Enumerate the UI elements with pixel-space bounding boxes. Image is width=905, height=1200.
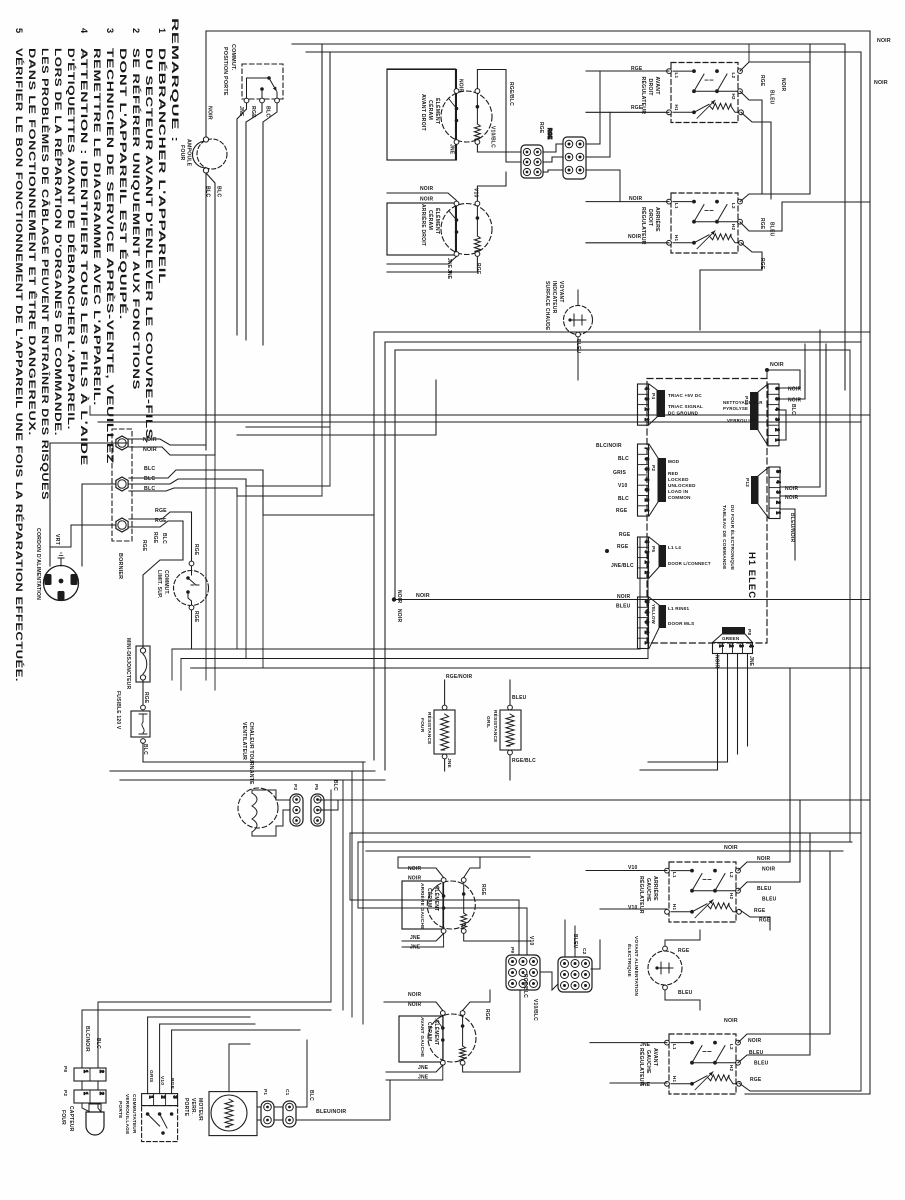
wire capteur <box>81 1062 83 1068</box>
svg-text:GAUCHE: GAUCHE <box>645 1050 651 1074</box>
svg-text:L1 L4: L1 L4 <box>668 545 681 550</box>
svg-text:BLC: BLC <box>144 476 155 482</box>
svg-text:BLC: BLC <box>308 1090 314 1101</box>
svg-text:NOIR: NOIR <box>757 856 770 862</box>
svg-text:P4: P4 <box>650 393 656 399</box>
wire commut-limit <box>191 512 193 561</box>
svg-text:TRIAC SIGNAL: TRIAC SIGNAL <box>668 404 703 409</box>
board H1-ELEC outline <box>647 379 767 644</box>
svg-text:AVANT: AVANT <box>652 1048 658 1067</box>
svg-text:L1: L1 <box>674 203 679 209</box>
svg-text:RGE: RGE <box>538 122 544 134</box>
svg-text:BLC: BLC <box>265 106 271 117</box>
regulator avant gauche <box>669 1034 736 1094</box>
svg-text:RGE: RGE <box>143 692 149 704</box>
svg-text:VOYANT ALIMENTATION: VOYANT ALIMENTATION <box>633 936 639 996</box>
wire mesh horizontals <box>90 44 322 415</box>
svg-text:NOIR: NOIR <box>780 78 786 91</box>
svg-text:2: 2 <box>98 1070 104 1073</box>
svg-text:CÉRAM: CÉRAM <box>427 210 435 230</box>
svg-text:P2: P2 <box>650 465 656 471</box>
wire element3 <box>398 868 444 878</box>
svg-text:SURFACE CHAUDE: SURFACE CHAUDE <box>544 281 550 331</box>
svg-text:DOOR MLS: DOOR MLS <box>668 621 694 626</box>
svg-text:MOTEUR: MOTEUR <box>197 1098 203 1121</box>
svg-text:L2: L2 <box>731 73 736 79</box>
connector P8 <box>713 643 753 654</box>
svg-text:NOIR: NOIR <box>877 38 891 44</box>
svg-text:NOIR: NOIR <box>416 593 430 599</box>
svg-text:2: 2 <box>131 28 141 34</box>
svg-text:MOD: MOD <box>668 459 680 464</box>
wire right bundle <box>819 330 821 487</box>
svg-text:PYROLYSE: PYROLYSE <box>723 406 748 411</box>
svg-text:2: 2 <box>728 645 734 648</box>
connector P2-capteur <box>74 1090 106 1103</box>
svg-text:BLC: BLC <box>161 533 167 544</box>
connector P2 <box>638 444 649 516</box>
wire bundle councils <box>155 761 365 763</box>
svg-text:CÉRAM: CÉRAM <box>426 888 434 907</box>
svg-text:RGE: RGE <box>152 532 158 544</box>
svg-text:BLC: BLC <box>216 186 222 197</box>
svg-text:NOIR: NOIR <box>408 866 421 872</box>
svg-text:UNLOCKED: UNLOCKED <box>668 483 696 488</box>
svg-text:VERR.: VERR. <box>190 1098 196 1115</box>
svg-text:DROIT: DROIT <box>647 79 653 97</box>
regulator arriere gauche <box>669 862 736 922</box>
svg-text:VENTILATEUR: VENTILATEUR <box>241 722 247 760</box>
node noir-junction <box>392 597 396 601</box>
svg-text:H1: H1 <box>672 904 677 911</box>
connector P12 <box>769 467 780 519</box>
connector P8-capteur <box>74 1068 106 1081</box>
svg-text:COMMUT.: COMMUT. <box>163 570 169 595</box>
indicator temoin surface chaude <box>564 306 593 335</box>
svg-text:BLC: BLC <box>790 404 796 415</box>
connector P10 3x3 <box>506 955 540 990</box>
wire bornier right <box>128 439 206 445</box>
svg-text:NOIR: NOIR <box>408 1002 421 1008</box>
svg-text:RED: RED <box>668 471 679 476</box>
element ceram avant droit <box>387 69 456 160</box>
wire conn33 <box>518 900 520 955</box>
svg-text:BORNIER: BORNIER <box>117 553 123 579</box>
svg-text:RGE: RGE <box>193 611 199 623</box>
svg-text:FOUR: FOUR <box>60 1110 66 1125</box>
svg-text:5: 5 <box>643 468 649 471</box>
svg-text:RGE: RGE <box>480 884 486 896</box>
svg-text:NOIR: NOIR <box>724 845 738 851</box>
resistor resistance-gril <box>500 710 521 750</box>
svg-text:RGE: RGE <box>616 508 628 514</box>
svg-text:V10/BLC: V10/BLC <box>532 999 538 1021</box>
sensor capteur-four <box>86 1112 104 1135</box>
svg-text:SE RÉFÉRER UNIQUEMENT AUX FONC: SE RÉFÉRER UNIQUEMENT AUX FONCTIONS <box>131 48 142 390</box>
svg-text:3: 3 <box>774 418 780 421</box>
svg-text:BLC: BLC <box>618 496 629 502</box>
svg-text:RGE/BLC: RGE/BLC <box>522 974 528 998</box>
svg-text:RGE: RGE <box>484 1009 490 1021</box>
svg-text:ARRIÈRE DROIT: ARRIÈRE DROIT <box>420 204 428 246</box>
svg-text:NOIR: NOIR <box>420 186 433 192</box>
svg-text:L1: L1 <box>672 872 677 878</box>
svg-text:NOIR: NOIR <box>143 437 157 443</box>
svg-text:JNE: JNE <box>446 269 452 280</box>
wire temoin <box>577 290 579 306</box>
svg-text:BLEU: BLEU <box>512 695 527 701</box>
svg-text:BLEU: BLEU <box>762 897 777 903</box>
connector P5 capsule <box>311 794 324 826</box>
switch commut-position-porte <box>242 64 283 99</box>
svg-text:RGE/BLC: RGE/BLC <box>512 758 536 764</box>
svg-text:CÉRAM: CÉRAM <box>427 100 435 120</box>
svg-text:C2: C2 <box>581 948 587 955</box>
svg-text:COMMUTATEUR: COMMUTATEUR <box>131 1094 137 1134</box>
svg-text:5: 5 <box>775 470 781 473</box>
wire P12 right <box>781 486 821 488</box>
svg-text:NOIR: NOIR <box>207 106 213 120</box>
svg-text:L2: L2 <box>729 872 734 878</box>
svg-text:7: 7 <box>643 447 649 450</box>
svg-text:DONT L'APPAREIL EST ÉQUIPÉ.: DONT L'APPAREIL EST ÉQUIPÉ. <box>118 48 129 320</box>
wire ventilateur <box>276 799 290 801</box>
svg-text:ÉLÉMENT: ÉLÉMENT <box>434 98 442 125</box>
wire lamp left <box>205 31 207 137</box>
svg-text:BLEU: BLEU <box>769 222 775 237</box>
wire 6pin to elements/regulators <box>543 144 563 152</box>
wire verrouillage <box>148 1017 250 1094</box>
wire moteur <box>257 1106 261 1108</box>
svg-text:5: 5 <box>14 28 24 34</box>
terminal-block bornier <box>112 429 132 541</box>
svg-text:H1: H1 <box>674 235 679 242</box>
wire right long verticals <box>860 52 862 1091</box>
svg-text:DÉBRANCHER L'APPAREIL: DÉBRANCHER L'APPAREIL <box>157 48 168 284</box>
svg-text:NOIR: NOIR <box>724 1018 738 1024</box>
wire top border outer <box>206 31 870 1094</box>
regulator avant droit <box>671 63 738 123</box>
svg-text:H1: H1 <box>674 105 679 112</box>
svg-text:BLC: BLC <box>205 186 211 197</box>
svg-text:LES PROBLÈMES DE CÂBLAGE PEUVE: LES PROBLÈMES DE CÂBLAGE PEUVENT ENTRAÎN… <box>40 48 51 500</box>
svg-text:RGE: RGE <box>678 948 690 954</box>
svg-text:CÉRAM: CÉRAM <box>426 1022 434 1041</box>
svg-text:YELLOW: YELLOW <box>651 604 656 625</box>
node notes-text <box>14 18 180 682</box>
svg-text:1: 1 <box>157 28 167 34</box>
connector P9 <box>638 597 649 649</box>
svg-text:2: 2 <box>643 408 649 411</box>
svg-text:RGE: RGE <box>141 540 147 552</box>
svg-text:JNE: JNE <box>748 656 754 667</box>
svg-text:V10: V10 <box>528 936 534 946</box>
svg-text:NOIR: NOIR <box>420 197 433 203</box>
svg-text:VOYANT: VOYANT <box>558 281 564 303</box>
svg-text:BLEU: BLEU <box>769 90 775 105</box>
wire regulator2 left <box>586 201 669 203</box>
svg-text:NOIR: NOIR <box>408 876 421 882</box>
svg-text:JNE: JNE <box>410 935 421 941</box>
svg-text:D'ÉTIQUETTES AVANT DE DÉBRANCH: D'ÉTIQUETTES AVANT DE DÉBRANCHER L'APPAR… <box>66 48 77 430</box>
wire bundle low horizontals <box>350 832 861 834</box>
svg-text:MINI-DISJONCTEUR: MINI-DISJONCTEUR <box>125 638 131 689</box>
svg-text:P8: P8 <box>746 629 752 635</box>
svg-text:1: 1 <box>82 1070 88 1073</box>
svg-text:DROIT: DROIT <box>647 209 653 227</box>
svg-text:4: 4 <box>748 645 754 648</box>
svg-text:NOIR: NOIR <box>143 447 157 453</box>
svg-text:ARRIÈRE: ARRIÈRE <box>652 876 660 901</box>
svg-text:LIMIT. SUP.: LIMIT. SUP. <box>156 570 162 599</box>
svg-text:P5: P5 <box>650 546 656 552</box>
svg-text:RÉGULATEUR: RÉGULATEUR <box>638 876 646 914</box>
switch commutateur-verrouillage-porte <box>142 1094 178 1106</box>
svg-text:CAPTEUR: CAPTEUR <box>68 1106 74 1132</box>
svg-text:FUSIBLE 120 V: FUSIBLE 120 V <box>115 691 121 730</box>
wire element4 <box>384 1002 443 1011</box>
svg-text:C1: C1 <box>284 1089 290 1096</box>
svg-text:4: 4 <box>774 408 780 411</box>
svg-text:FOUR: FOUR <box>179 145 185 161</box>
power-cord cordon-alimentation <box>44 566 79 601</box>
svg-text:2: 2 <box>775 501 781 504</box>
svg-text:TECHNICIEN DE SERVICE APRÈS-VE: TECHNICIEN DE SERVICE APRÈS-VENTE, VEUIL… <box>105 48 116 464</box>
resistor resistance-four <box>434 710 455 754</box>
svg-text:V10: V10 <box>618 483 628 489</box>
svg-text:2: 2 <box>160 1096 166 1099</box>
svg-text:JNE: JNE <box>418 1065 429 1071</box>
wire mesh middle verticals <box>321 415 323 496</box>
motor moteur-verrou-porte <box>209 1092 257 1136</box>
svg-text:6: 6 <box>643 457 649 460</box>
svg-text:L1: L1 <box>672 1044 677 1050</box>
svg-text:BLC: BLC <box>332 780 338 791</box>
connector P3 capsule <box>290 794 303 826</box>
svg-text:3: 3 <box>172 1096 178 1099</box>
svg-text:AVANT DROIT: AVANT DROIT <box>420 94 426 132</box>
svg-text:RGE: RGE <box>754 908 766 914</box>
svg-text:3: 3 <box>775 491 781 494</box>
svg-text:4: 4 <box>643 540 649 543</box>
element ceram arriere gauche <box>402 881 443 929</box>
svg-text:RGE: RGE <box>750 1077 762 1083</box>
wire regulator1 left <box>586 70 669 72</box>
wire top border second <box>292 44 845 390</box>
svg-text:ATTENTION : IDENTIFIER TOUS LE: ATTENTION : IDENTIFIER TOUS LES FILS À L… <box>79 48 90 466</box>
svg-text:FOUR: FOUR <box>419 718 425 733</box>
svg-text:NOIR: NOIR <box>396 609 402 622</box>
svg-text:JNE: JNE <box>449 144 455 155</box>
svg-text:BLEU/NOIR: BLEU/NOIR <box>789 513 795 542</box>
svg-text:GAUCHE: GAUCHE <box>645 878 651 902</box>
svg-text:TRIAC +5V DC: TRIAC +5V DC <box>668 393 702 398</box>
lamp ampoule-four <box>197 139 227 169</box>
svg-text:DOOR L/CONNECT: DOOR L/CONNECT <box>668 561 711 566</box>
svg-text:COMMON: COMMON <box>668 495 691 500</box>
svg-text:3: 3 <box>105 28 115 34</box>
svg-text:L1 RIN01: L1 RIN01 <box>668 606 690 611</box>
svg-text:1: 1 <box>82 1092 88 1095</box>
svg-text:GRIS: GRIS <box>148 1070 154 1083</box>
svg-text:RGE: RGE <box>631 105 643 111</box>
svg-text:COMMUT.: COMMUT. <box>230 44 236 71</box>
connector C1 capsule <box>283 1101 296 1127</box>
motor ventilateur-chaleur-tournante <box>238 788 278 828</box>
connector P15 <box>768 384 779 446</box>
svg-text:H1 ELEC: H1 ELEC <box>746 552 757 599</box>
svg-text:JNE: JNE <box>410 945 421 951</box>
connector P6 <box>638 537 649 578</box>
svg-text:INDICATEUR: INDICATEUR <box>551 281 557 314</box>
svg-text:L1: L1 <box>674 73 679 79</box>
svg-text:PORTE: PORTE <box>117 1101 123 1119</box>
svg-text:NOIR: NOIR <box>874 80 888 86</box>
svg-text:REMETTRE LE DIAGRAMME AVEC L'A: REMETTRE LE DIAGRAMME AVEC L'APPAREIL. <box>92 48 102 406</box>
wire voyant <box>665 930 700 946</box>
element ceram arriere droit <box>387 203 456 255</box>
svg-text:NOIR: NOIR <box>714 655 720 668</box>
svg-text:2: 2 <box>774 428 780 431</box>
svg-text:RGE: RGE <box>759 218 765 230</box>
svg-text:6: 6 <box>774 387 780 390</box>
svg-text:L2: L2 <box>729 1044 734 1050</box>
svg-text:BLEU: BLEU <box>757 886 772 892</box>
svg-text:GREEN: GREEN <box>722 636 740 641</box>
wire resistance-gril <box>509 680 511 705</box>
svg-text:1: 1 <box>718 645 724 648</box>
svg-text:DANS LE FONCTIONNEMENT ET ÊTRE: DANS LE FONCTIONNEMENT ET ÊTRE DANGEREUX… <box>27 48 38 436</box>
svg-text:RGE: RGE <box>759 918 771 924</box>
svg-text:NOIR: NOIR <box>628 234 641 240</box>
svg-text:ARRIÈRE: ARRIÈRE <box>654 207 662 232</box>
svg-text:TABLEAU DE COMMANDE: TABLEAU DE COMMANDE <box>721 505 727 570</box>
regulator arriere droit <box>671 193 738 253</box>
svg-text:H2: H2 <box>731 224 736 231</box>
connector 6pin-right-elements <box>521 145 543 178</box>
wire reg3 <box>586 870 667 872</box>
svg-text:P12: P12 <box>744 478 750 487</box>
svg-text:RÉGULATEUR: RÉGULATEUR <box>638 1048 646 1086</box>
svg-text:NOIR: NOIR <box>408 992 421 998</box>
wire door-switch drops <box>237 103 247 335</box>
svg-text:RGE: RGE <box>475 263 481 275</box>
svg-text:RGE: RGE <box>759 75 765 87</box>
svg-text:VRT: VRT <box>54 534 60 546</box>
wire bundle mid horizontal <box>172 648 640 650</box>
switch commut-limit-sup <box>174 571 209 606</box>
svg-text:AVANT: AVANT <box>654 77 660 96</box>
wire P15 right <box>780 370 801 388</box>
svg-text:ÉLÉMENT: ÉLÉMENT <box>434 208 442 235</box>
wire long cross horizontals <box>322 414 869 416</box>
svg-text:AVANT GAUCHE: AVANT GAUCHE <box>419 1017 425 1058</box>
svg-text:GRIS: GRIS <box>613 470 626 476</box>
breaker mini-disjoncteur <box>136 646 150 682</box>
svg-text:LOAD IN: LOAD IN <box>668 489 689 494</box>
svg-text:P5: P5 <box>313 784 319 790</box>
svg-text:NETTOYAGE PAR: NETTOYAGE PAR <box>723 400 763 405</box>
svg-text:NOIR: NOIR <box>396 590 402 603</box>
svg-text:JNE/BLC: JNE/BLC <box>611 563 634 569</box>
wire top third <box>306 52 861 330</box>
svg-text:RGE: RGE <box>193 544 199 556</box>
svg-text:CORDON D'ALIMENTATION: CORDON D'ALIMENTATION <box>35 528 41 600</box>
svg-text:P9: P9 <box>509 947 515 953</box>
svg-text:4: 4 <box>79 28 89 34</box>
svg-text:BLC/NOIR: BLC/NOIR <box>84 1026 90 1052</box>
svg-text:GRIL: GRIL <box>485 716 491 728</box>
wire reg4 <box>590 1042 667 1044</box>
svg-text:5: 5 <box>774 397 780 400</box>
wire mesh mid-left <box>237 488 322 496</box>
svg-text:BLC: BLC <box>618 456 629 462</box>
svg-text:1: 1 <box>148 1096 154 1099</box>
fuse fusible-120v <box>131 711 150 737</box>
wire regulator1 right <box>740 44 810 71</box>
svg-text:RGE: RGE <box>546 128 552 140</box>
wire element2 <box>387 193 457 201</box>
wire fuse chain <box>142 621 144 648</box>
svg-text:RGE: RGE <box>619 532 631 538</box>
svg-text:1: 1 <box>774 439 780 442</box>
svg-text:1: 1 <box>775 511 781 514</box>
svg-text:V10/BLC: V10/BLC <box>490 126 496 148</box>
svg-text:LOCKED: LOCKED <box>668 477 689 482</box>
wire element1 <box>456 70 458 89</box>
connector P4 <box>638 384 649 425</box>
svg-text:DU SECTEUR AVANT D'ENLEVER LE: DU SECTEUR AVANT D'ENLEVER LE COUVRE-FIL… <box>144 48 154 444</box>
svg-text:JNE: JNE <box>446 758 452 769</box>
svg-text:3: 3 <box>738 645 744 648</box>
wire resistance-four <box>444 680 446 705</box>
svg-text:L2: L2 <box>731 203 736 209</box>
svg-text:4: 4 <box>643 478 649 481</box>
svg-text:ÉLÉMENT: ÉLÉMENT <box>433 1020 441 1045</box>
svg-text:VERROUILLAGE: VERROUILLAGE <box>124 1094 130 1135</box>
wire cord <box>50 443 128 566</box>
svg-text:4: 4 <box>775 480 781 483</box>
svg-text:BLEU: BLEU <box>754 1061 769 1067</box>
svg-text:BLEU: BLEU <box>678 990 693 996</box>
svg-text:3: 3 <box>643 397 649 400</box>
wire P8 down <box>640 654 718 771</box>
wire regulator2 right <box>740 62 810 202</box>
svg-text:BLC: BLC <box>144 466 155 472</box>
svg-text:P8: P8 <box>62 1066 68 1072</box>
svg-text:H2: H2 <box>729 893 734 900</box>
svg-text:P2: P2 <box>62 1090 68 1096</box>
svg-text:NOIR: NOIR <box>458 79 464 92</box>
svg-text:2: 2 <box>643 499 649 502</box>
svg-text:NOIR: NOIR <box>748 1038 761 1044</box>
svg-text:RGE/NOIR: RGE/NOIR <box>446 674 473 680</box>
svg-text:BLC/NOIR: BLC/NOIR <box>596 443 622 449</box>
connector P1 capsule <box>261 1101 274 1127</box>
svg-text:NOIR: NOIR <box>788 387 801 393</box>
svg-text:H2: H2 <box>729 1065 734 1072</box>
connector 6pin-right-elements-b <box>563 137 586 179</box>
svg-text:AMPOULE: AMPOULE <box>186 139 192 167</box>
svg-text:REMARQUE :: REMARQUE : <box>170 18 180 143</box>
svg-text:4: 4 <box>643 387 649 390</box>
element ceram avant gauche <box>399 1016 443 1062</box>
svg-text:P3: P3 <box>292 784 298 790</box>
svg-text:RGE: RGE <box>617 544 629 550</box>
svg-text:CHALEUR TOURNANTE: CHALEUR TOURNANTE <box>248 722 254 785</box>
svg-text:BLEU: BLEU <box>616 604 631 610</box>
svg-text:POSITION PORTE: POSITION PORTE <box>222 47 228 96</box>
